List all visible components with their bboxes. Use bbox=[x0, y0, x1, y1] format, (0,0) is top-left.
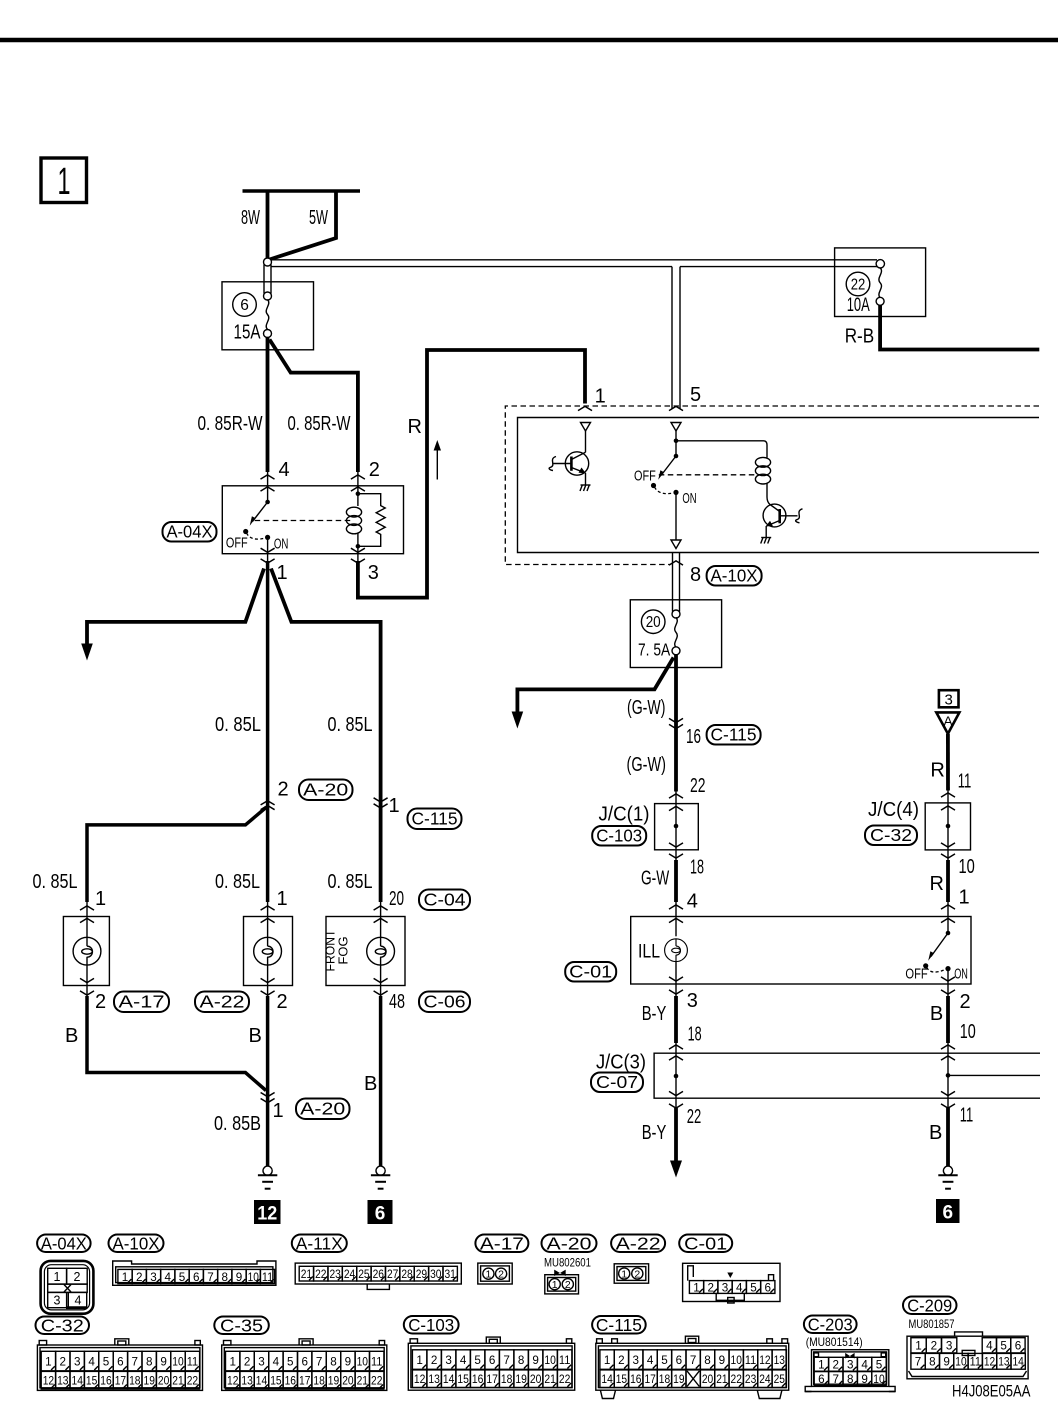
ETACS pin 5 chevron bbox=[669, 406, 683, 410]
branch wire to front fog wire bbox=[271, 569, 381, 903]
svg-text:8: 8 bbox=[704, 1353, 711, 1367]
svg-text:A-10X: A-10X bbox=[711, 566, 758, 586]
wire stub out of J/C(4) bbox=[947, 850, 949, 861]
svg-text:7: 7 bbox=[207, 1270, 214, 1284]
relay coil bottom node bbox=[356, 544, 361, 549]
svg-text:7. 5A: 7. 5A bbox=[638, 640, 670, 660]
svg-text:4: 4 bbox=[460, 1353, 467, 1367]
connector view A-17 bbox=[478, 1263, 512, 1284]
svg-text:20: 20 bbox=[646, 614, 661, 631]
svg-text:5: 5 bbox=[1000, 1339, 1007, 1353]
svg-text:9: 9 bbox=[345, 1354, 352, 1368]
ground (fog) bbox=[371, 1166, 390, 1189]
svg-text:19: 19 bbox=[673, 1374, 684, 1386]
svg-text:B: B bbox=[65, 1025, 78, 1047]
svg-text:9: 9 bbox=[719, 1353, 726, 1367]
junction block J/C(1) box bbox=[655, 804, 699, 850]
J/C(3) right inner chevrons bbox=[941, 1056, 955, 1060]
svg-text:13: 13 bbox=[774, 1353, 786, 1367]
C-01 pin1 chevrons bbox=[941, 905, 955, 909]
svg-text:12: 12 bbox=[759, 1353, 771, 1367]
svg-text:J/C(1): J/C(1) bbox=[599, 803, 650, 825]
svg-text:15A: 15A bbox=[234, 322, 261, 344]
relay pin 2 chevrons bbox=[351, 475, 365, 479]
J/C(3) right node bbox=[946, 1073, 951, 1078]
wire 8W lamp bbox=[266, 191, 270, 259]
svg-text:A: A bbox=[943, 713, 953, 729]
connector view A-11X label bbox=[292, 1234, 347, 1254]
svg-text:2: 2 bbox=[931, 1339, 938, 1353]
ETACS Q2 ground bbox=[761, 538, 772, 544]
svg-text:16: 16 bbox=[630, 1374, 641, 1386]
unit C-01 box bbox=[631, 917, 971, 985]
svg-text:9: 9 bbox=[943, 1355, 950, 1369]
fuse 22 top pin bbox=[876, 260, 884, 268]
connector view C-203 bbox=[805, 1350, 895, 1392]
C-01 lamp bottom chevron bbox=[669, 977, 683, 981]
connector view A-22 bbox=[614, 1264, 648, 1283]
wire stub out of J/C(1) bbox=[675, 850, 677, 861]
connector label C-115 (inline) bbox=[707, 725, 761, 745]
svg-text:11: 11 bbox=[745, 1353, 757, 1367]
A-17 bottom chevrons bbox=[80, 978, 94, 982]
wire R from triangle to J/C(4) bbox=[946, 734, 950, 791]
svg-text:4: 4 bbox=[687, 891, 698, 913]
svg-text:FRONT: FRONT bbox=[324, 929, 338, 971]
svg-text:B: B bbox=[929, 1122, 942, 1144]
svg-text:9: 9 bbox=[236, 1270, 243, 1284]
ETACS transistor Q2 bbox=[763, 504, 802, 527]
svg-text:7: 7 bbox=[316, 1354, 323, 1368]
connector view C-35 bbox=[222, 1339, 387, 1391]
connector view C-115 label bbox=[592, 1315, 646, 1335]
ETACS pin 1 chevron bbox=[578, 406, 592, 410]
svg-text:A-04X: A-04X bbox=[167, 522, 213, 542]
lamp A-22 bulb bbox=[254, 918, 282, 984]
ETACS inner solid box bbox=[518, 418, 1040, 553]
wire stub into A-17 bbox=[86, 902, 88, 918]
svg-text:1: 1 bbox=[45, 1354, 52, 1368]
svg-text:20: 20 bbox=[342, 1375, 353, 1387]
direction arrow (R wire) bbox=[434, 440, 441, 480]
svg-text:A-20: A-20 bbox=[300, 1099, 345, 1119]
svg-text:1: 1 bbox=[389, 795, 400, 817]
inline connector chevrons 1/A-20 bbox=[261, 1093, 275, 1103]
svg-text:3: 3 bbox=[445, 1353, 452, 1367]
connector view A-04X label bbox=[37, 1234, 91, 1254]
ETACS dashed enclosure bbox=[505, 406, 1039, 565]
svg-text:6: 6 bbox=[193, 1270, 200, 1284]
svg-text:C-103: C-103 bbox=[596, 826, 642, 846]
svg-text:C-06: C-06 bbox=[424, 992, 466, 1012]
svg-text:B-Y: B-Y bbox=[642, 1003, 667, 1025]
svg-text:3: 3 bbox=[946, 1339, 953, 1353]
connector label C-06 bbox=[419, 992, 470, 1013]
svg-text:1: 1 bbox=[485, 1269, 491, 1281]
svg-text:4: 4 bbox=[279, 459, 290, 481]
svg-text:25: 25 bbox=[774, 1374, 785, 1386]
J/C(4) bottom outside chevron bbox=[941, 854, 955, 858]
wire B (A-17) bbox=[87, 996, 266, 1091]
svg-text:2: 2 bbox=[431, 1353, 438, 1367]
svg-text:5: 5 bbox=[876, 1358, 883, 1372]
svg-text:0. 85L: 0. 85L bbox=[33, 871, 78, 893]
svg-text:2: 2 bbox=[60, 1354, 67, 1368]
svg-text:2: 2 bbox=[95, 991, 106, 1013]
svg-text:0. 85L: 0. 85L bbox=[215, 871, 260, 893]
J/C(3) right exit chevron bbox=[941, 1104, 955, 1108]
svg-text:G-W: G-W bbox=[641, 868, 669, 890]
J/C(4) node bbox=[946, 824, 951, 829]
ETACS coil to Q2 wire bbox=[767, 484, 770, 505]
svg-text:10: 10 bbox=[544, 1353, 556, 1367]
J/C(3) left node bbox=[674, 1074, 679, 1079]
inline connector chevrons 1/C-115 (fog) bbox=[374, 798, 388, 808]
fuse 20 top pin bbox=[672, 610, 680, 618]
wire stub into J/C(3) left bbox=[675, 1043, 677, 1053]
wire (G-W) from fuse 20 down bbox=[674, 654, 678, 792]
svg-text:8: 8 bbox=[146, 1354, 153, 1368]
wire stub into FOG box bbox=[380, 902, 382, 918]
relay coil bottom wire bbox=[357, 533, 359, 564]
svg-text:9: 9 bbox=[861, 1372, 868, 1386]
svg-text:12: 12 bbox=[414, 1374, 426, 1386]
svg-text:6: 6 bbox=[818, 1372, 825, 1386]
svg-text:21: 21 bbox=[544, 1374, 556, 1386]
svg-text:A-10X: A-10X bbox=[113, 1234, 160, 1254]
svg-text:19: 19 bbox=[515, 1374, 527, 1386]
ETACS pin5 internal triangle bbox=[671, 423, 681, 432]
fuse 22 bottom pin bbox=[876, 297, 884, 305]
connector label A-17 bbox=[114, 992, 169, 1013]
svg-text:20: 20 bbox=[158, 1375, 169, 1387]
fuse 22 id circle bbox=[846, 272, 870, 296]
relay A-04X box bbox=[222, 486, 403, 554]
relay pin 3 chevrons bbox=[351, 548, 365, 552]
headlamp bus bar bbox=[243, 189, 361, 193]
relay switch to pin 1 wire bbox=[267, 537, 269, 564]
connector view C-32 label bbox=[36, 1316, 90, 1336]
svg-text:B: B bbox=[930, 1003, 943, 1025]
svg-text:2: 2 bbox=[277, 991, 288, 1013]
wire B-Y bbox=[674, 996, 678, 1043]
svg-text:16: 16 bbox=[472, 1374, 484, 1386]
svg-text:23: 23 bbox=[745, 1374, 756, 1386]
svg-text:11: 11 bbox=[187, 1354, 199, 1368]
front fog lamp box bbox=[326, 917, 405, 986]
svg-text:10: 10 bbox=[731, 1353, 743, 1367]
svg-text:20: 20 bbox=[702, 1374, 713, 1386]
svg-text:18: 18 bbox=[688, 1023, 702, 1045]
ETACS switch output wire bbox=[675, 492, 677, 539]
svg-text:22: 22 bbox=[187, 1375, 198, 1387]
svg-text:20: 20 bbox=[530, 1374, 542, 1386]
svg-text:2: 2 bbox=[618, 1353, 625, 1367]
relay pin 1 chevrons bbox=[261, 548, 275, 552]
hollow wire lamp to fuse 6 bbox=[263, 265, 265, 294]
hollow wire ETACS pin 8 to fuse 20 bbox=[672, 553, 674, 612]
J/C(1) inner bottom chevron bbox=[669, 843, 683, 847]
page link triangle A bbox=[936, 712, 959, 733]
svg-text:8: 8 bbox=[847, 1372, 854, 1386]
svg-text:12: 12 bbox=[43, 1375, 54, 1387]
relay pin 4 chevrons bbox=[261, 475, 275, 479]
svg-text:OFF: OFF bbox=[905, 966, 927, 982]
svg-text:10: 10 bbox=[172, 1354, 184, 1368]
svg-text:C-115: C-115 bbox=[412, 809, 458, 829]
relay coil feed wire bbox=[357, 471, 359, 506]
svg-text:R: R bbox=[408, 416, 422, 438]
svg-text:18: 18 bbox=[501, 1374, 513, 1386]
svg-text:C-203: C-203 bbox=[808, 1315, 853, 1335]
connector view C-209 bbox=[907, 1332, 1028, 1379]
svg-text:6: 6 bbox=[117, 1354, 124, 1368]
wire stub out of J/C(3) left bbox=[675, 1098, 677, 1110]
svg-text:4: 4 bbox=[986, 1339, 993, 1353]
wire stub into A-22 bbox=[267, 902, 269, 918]
svg-text:10: 10 bbox=[960, 1021, 976, 1043]
C-01 right bottom chevrons bbox=[941, 977, 955, 981]
thick branch arrow from fuse 20 bbox=[512, 658, 674, 729]
svg-text:R: R bbox=[930, 760, 944, 782]
svg-text:11: 11 bbox=[371, 1354, 383, 1368]
svg-text:B: B bbox=[249, 1025, 262, 1047]
wire stub out of A-17 bbox=[86, 984, 88, 997]
branch wire to left page arrow bbox=[81, 569, 264, 661]
svg-text:ON: ON bbox=[682, 491, 696, 507]
svg-text:1: 1 bbox=[95, 888, 106, 910]
svg-text:13: 13 bbox=[57, 1375, 68, 1387]
svg-text:7: 7 bbox=[833, 1372, 840, 1386]
wire B bbox=[946, 996, 950, 1043]
fuse 20 box bbox=[630, 600, 721, 668]
svg-text:5: 5 bbox=[661, 1353, 668, 1367]
svg-text:1: 1 bbox=[621, 1268, 627, 1280]
C-01 pin4 chevrons bbox=[669, 905, 683, 909]
svg-text:22: 22 bbox=[559, 1374, 571, 1386]
svg-text:4: 4 bbox=[75, 1294, 82, 1308]
svg-text:C-01: C-01 bbox=[569, 962, 612, 982]
svg-text:A-20: A-20 bbox=[303, 780, 348, 800]
svg-text:17: 17 bbox=[644, 1374, 655, 1386]
svg-text:H4J08E05AA: H4J08E05AA bbox=[952, 1382, 1031, 1401]
svg-text:R: R bbox=[930, 873, 944, 895]
svg-text:1: 1 bbox=[595, 385, 606, 407]
A-22 pin1 chevrons bbox=[261, 906, 275, 910]
svg-text:17: 17 bbox=[299, 1375, 310, 1387]
fuse 6 box bbox=[222, 282, 314, 350]
svg-text:8: 8 bbox=[518, 1353, 525, 1367]
svg-text:20: 20 bbox=[389, 888, 404, 910]
svg-text:2: 2 bbox=[634, 1268, 640, 1280]
junction block J/C(3) box (open right) bbox=[654, 1053, 1040, 1098]
pin 8 chevron bbox=[669, 561, 683, 565]
svg-text:0. 85L: 0. 85L bbox=[215, 714, 261, 736]
connector view A-20 bbox=[545, 1270, 579, 1294]
svg-text:MU801857: MU801857 bbox=[909, 1317, 955, 1331]
svg-text:5: 5 bbox=[103, 1354, 110, 1368]
relay coil top node bbox=[356, 491, 361, 496]
svg-text:5: 5 bbox=[179, 1270, 186, 1284]
relay switch common wire bbox=[267, 471, 269, 502]
relay switch ON contact bbox=[265, 535, 270, 540]
fuse 6 element bbox=[266, 300, 269, 330]
ground tag 12 bbox=[254, 1200, 281, 1225]
svg-text:1: 1 bbox=[959, 887, 970, 909]
wire R-B from fuse 22 bbox=[880, 305, 1039, 349]
svg-text:48: 48 bbox=[389, 991, 405, 1013]
svg-text:9: 9 bbox=[160, 1354, 167, 1368]
svg-text:(MU801514): (MU801514) bbox=[806, 1335, 863, 1349]
svg-text:22: 22 bbox=[851, 277, 866, 294]
connector view C-01 bbox=[683, 1263, 780, 1303]
J/C(1) inner top chevron bbox=[669, 806, 683, 810]
J/C(4) internal wire bbox=[947, 803, 949, 850]
wire stub out of A-22 bbox=[267, 984, 269, 997]
wire 0.85R-W from fuse 6 to relay pin 4 bbox=[266, 337, 270, 472]
svg-text:3: 3 bbox=[847, 1358, 854, 1372]
svg-text:ON: ON bbox=[274, 537, 289, 553]
connector label C-115 (fog) bbox=[408, 809, 462, 830]
connector view A-11X bbox=[295, 1263, 461, 1289]
svg-text:1: 1 bbox=[229, 1354, 236, 1368]
svg-text:6: 6 bbox=[301, 1354, 308, 1368]
ground (right) bbox=[938, 1166, 957, 1189]
connector view A-17 label bbox=[475, 1234, 528, 1254]
A-17 pin1 chevrons bbox=[80, 906, 94, 910]
svg-text:2: 2 bbox=[833, 1358, 840, 1372]
ground tag 6 (right) bbox=[936, 1199, 960, 1224]
svg-text:1: 1 bbox=[277, 562, 288, 584]
svg-text:3: 3 bbox=[368, 562, 379, 584]
svg-text:A-17: A-17 bbox=[480, 1234, 524, 1254]
svg-text:10A: 10A bbox=[847, 294, 870, 316]
wire stub out of FOG box bbox=[380, 984, 382, 997]
relay A-04X label bbox=[163, 522, 217, 542]
wire 0.85R-W branch to relay pin 2 bbox=[270, 340, 358, 473]
ETACS coil feed wire bbox=[676, 441, 767, 458]
svg-text:2: 2 bbox=[960, 991, 971, 1013]
connector view C-01 label bbox=[679, 1234, 732, 1254]
svg-text:3: 3 bbox=[150, 1270, 157, 1284]
fuse 22 element bbox=[879, 268, 882, 298]
svg-text:8: 8 bbox=[330, 1354, 337, 1368]
C-01 switch bbox=[923, 931, 951, 972]
svg-text:8: 8 bbox=[690, 564, 701, 586]
wire B (fog) to ground bbox=[379, 996, 383, 1167]
svg-text:12: 12 bbox=[257, 1204, 277, 1225]
svg-text:16: 16 bbox=[686, 726, 701, 748]
svg-text:C-01: C-01 bbox=[684, 1234, 727, 1254]
svg-text:8: 8 bbox=[929, 1355, 936, 1369]
svg-text:1: 1 bbox=[416, 1353, 423, 1367]
svg-text:2: 2 bbox=[498, 1269, 504, 1281]
fog bottom chevrons bbox=[374, 978, 388, 982]
branch wire to A-17 lamp bbox=[87, 808, 266, 903]
svg-text:3: 3 bbox=[633, 1353, 640, 1367]
relay coil L bbox=[346, 507, 361, 534]
svg-text:1: 1 bbox=[552, 1279, 558, 1291]
svg-text:0. 85L: 0. 85L bbox=[328, 714, 373, 736]
page link box 3 bbox=[939, 690, 959, 708]
svg-text:11: 11 bbox=[958, 771, 972, 793]
svg-text:22: 22 bbox=[371, 1375, 382, 1387]
svg-text:7: 7 bbox=[690, 1353, 697, 1367]
ETACS switch feed wire bbox=[675, 431, 677, 456]
front fog bulb bbox=[367, 918, 395, 984]
svg-text:4: 4 bbox=[273, 1354, 280, 1368]
wire stub into C-01 pin1 bbox=[947, 902, 949, 918]
svg-text:5: 5 bbox=[690, 384, 701, 406]
svg-text:6: 6 bbox=[1015, 1339, 1022, 1353]
connector view C-103 bbox=[408, 1337, 574, 1390]
svg-text:(G-W): (G-W) bbox=[627, 754, 667, 776]
wire stub into J/C(3) right bbox=[947, 1043, 949, 1053]
svg-text:A-11X: A-11X bbox=[296, 1234, 343, 1254]
svg-text:7: 7 bbox=[132, 1354, 139, 1368]
svg-text:9: 9 bbox=[532, 1353, 539, 1367]
svg-text:ILL: ILL bbox=[638, 942, 660, 963]
svg-text:5W: 5W bbox=[309, 207, 328, 229]
ETACS Q1 ground bbox=[580, 485, 591, 491]
svg-text:3: 3 bbox=[258, 1354, 265, 1368]
J/C(3) right top chevron bbox=[941, 1045, 955, 1049]
svg-text:1: 1 bbox=[915, 1339, 922, 1353]
svg-text:15: 15 bbox=[270, 1375, 281, 1387]
svg-text:6: 6 bbox=[240, 297, 249, 314]
svg-text:22: 22 bbox=[687, 1106, 702, 1128]
svg-text:21: 21 bbox=[172, 1375, 183, 1387]
fuse 22 box bbox=[835, 248, 926, 317]
svg-text:8W: 8W bbox=[241, 207, 260, 229]
J/C(4) inner chevrons bbox=[941, 806, 955, 810]
svg-text:OFF: OFF bbox=[634, 469, 656, 485]
svg-text:1: 1 bbox=[273, 1100, 284, 1122]
ground (A-22/A-17) bbox=[258, 1166, 277, 1189]
svg-text:J/C(3): J/C(3) bbox=[596, 1052, 646, 1074]
svg-text:C-32: C-32 bbox=[41, 1316, 84, 1336]
svg-text:MU802601: MU802601 bbox=[544, 1256, 591, 1270]
node: lamp feed pin bbox=[264, 258, 272, 266]
wire 5W lamp bbox=[270, 191, 337, 260]
connector view A-20 label bbox=[542, 1234, 597, 1254]
wire R to C-01 switch bbox=[946, 860, 950, 902]
ETACS coil L bbox=[755, 457, 770, 484]
wire R from relay pin3 to ETACS pin 1 bbox=[358, 350, 585, 598]
ETACS Q1 emitter wire bbox=[585, 473, 587, 485]
fuse 20 element bbox=[675, 617, 678, 647]
svg-text:21: 21 bbox=[716, 1374, 727, 1386]
svg-text:6: 6 bbox=[489, 1353, 496, 1367]
svg-text:C-115: C-115 bbox=[711, 725, 757, 745]
wire 0.85L main (relay pin1 down) bbox=[266, 561, 270, 902]
svg-text:2: 2 bbox=[565, 1279, 571, 1291]
svg-text:3: 3 bbox=[74, 1354, 81, 1368]
svg-text:7: 7 bbox=[503, 1353, 510, 1367]
connector label C-32 (mid) bbox=[865, 825, 917, 845]
relay switch arm bbox=[243, 500, 270, 534]
J/C(3) right internal wire bbox=[947, 1053, 949, 1098]
svg-text:13: 13 bbox=[428, 1374, 440, 1386]
svg-text:C-209: C-209 bbox=[907, 1296, 952, 1316]
J/C(1) internal wire bbox=[675, 804, 677, 850]
connector label C-07 bbox=[591, 1072, 643, 1092]
wire stub into C-01 pin4 bbox=[675, 902, 677, 918]
fuse 6 bottom pin bbox=[264, 330, 272, 338]
wire stub into J/C(1) bbox=[675, 792, 677, 804]
ILL lamp wire top bbox=[675, 918, 677, 936]
svg-text:8: 8 bbox=[222, 1270, 229, 1284]
